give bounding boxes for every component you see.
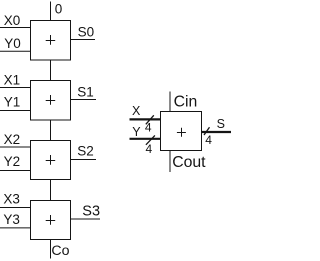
svg-text:4: 4	[145, 121, 152, 135]
svg-text:X: X	[132, 104, 141, 118]
svg-text:X2: X2	[4, 132, 21, 147]
svg-text:S: S	[217, 117, 225, 131]
svg-text:4: 4	[146, 142, 153, 156]
svg-text:Co: Co	[51, 243, 69, 259]
svg-text:S2: S2	[77, 144, 94, 159]
svg-text:Y: Y	[132, 125, 141, 139]
svg-text:S3: S3	[82, 203, 100, 219]
svg-text:Y1: Y1	[4, 94, 21, 109]
svg-text:Y0: Y0	[4, 36, 21, 51]
svg-text:S1: S1	[77, 84, 94, 99]
svg-text:4: 4	[205, 133, 212, 147]
svg-text:X3: X3	[3, 192, 20, 207]
svg-text:S0: S0	[78, 25, 95, 40]
svg-text:Cin: Cin	[174, 94, 198, 111]
svg-text:Y3: Y3	[3, 212, 20, 227]
svg-text:Y2: Y2	[4, 154, 21, 169]
svg-text:X0: X0	[4, 13, 21, 28]
svg-text:X1: X1	[4, 72, 21, 87]
svg-text:0: 0	[55, 2, 63, 17]
svg-text:Cout: Cout	[172, 154, 206, 171]
